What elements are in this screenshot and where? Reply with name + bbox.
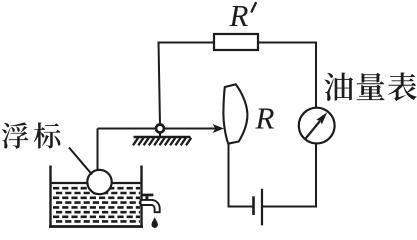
svg-text:R: R	[255, 101, 275, 136]
label 油量表 char 表	[388, 72, 417, 101]
pivot support bar	[134, 136, 191, 138]
lever arm wire	[98, 128, 219, 130]
tank right wall	[140, 166, 142, 228]
tank left wall	[49, 166, 51, 228]
tank bottom	[49, 225, 143, 228]
rheostat R curved band	[223, 84, 247, 143]
wire bottom-left horizontal	[228, 206, 254, 208]
battery positive plate (long)	[261, 189, 263, 226]
wire right vertical lower	[315, 144, 317, 206]
battery negative plate (short)	[252, 196, 255, 215]
liquid dashes	[53, 188, 140, 221]
label 油量表 char 量	[357, 73, 385, 100]
resistor R'	[214, 34, 258, 50]
galvanometer needle	[305, 121, 320, 140]
float ball	[87, 170, 111, 194]
label pointer line 浮标	[69, 148, 92, 175]
wire top-right horizontal	[258, 42, 317, 44]
lever arrowhead (wiper)	[213, 124, 225, 133]
pivot stub	[159, 131, 161, 137]
faucet handle stem	[145, 196, 148, 199]
galvanometer needle arrowhead	[316, 112, 327, 124]
galvanometer oil gauge meter	[299, 108, 335, 144]
faucet handle bar	[142, 194, 153, 197]
wire rheostat bottom vertical	[228, 144, 230, 208]
float rod	[97, 129, 99, 173]
pivot support hatching	[133, 138, 191, 146]
wire left vertical	[159, 42, 161, 126]
water drop	[152, 217, 158, 228]
label 浮标 char 浮	[2, 122, 29, 148]
label 浮标 char 标	[34, 122, 61, 148]
faucet body spout	[141, 200, 160, 212]
svg-text:R: R	[229, 0, 249, 33]
wire top-left horizontal	[158, 42, 215, 44]
label 油量表 char 油	[325, 72, 354, 100]
pivot circle	[156, 125, 164, 133]
wire bottom-right horizontal	[263, 206, 318, 208]
wire right vertical upper	[315, 42, 317, 109]
liquid surface line	[52, 182, 141, 184]
